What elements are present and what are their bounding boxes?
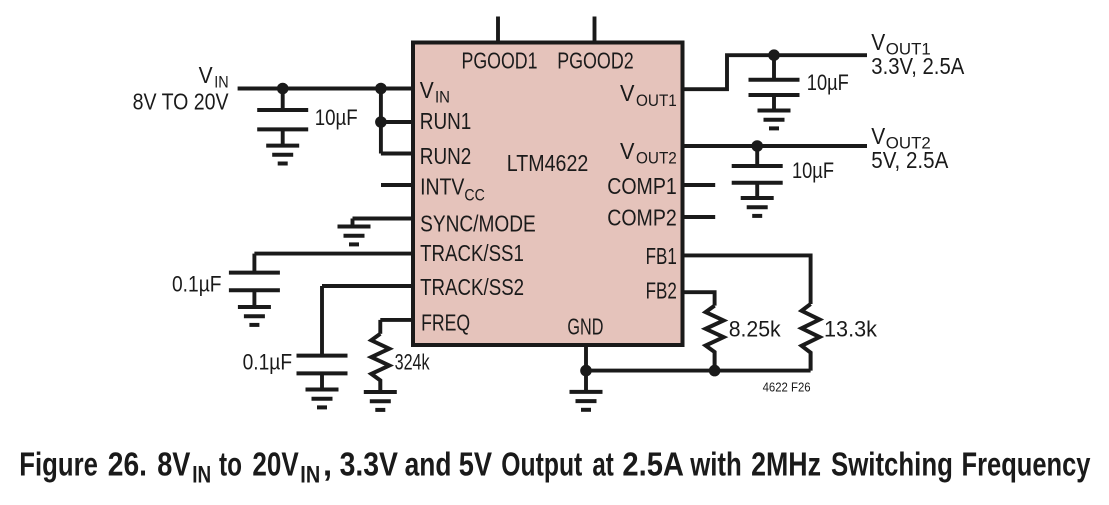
svg-text:13.3k: 13.3k — [824, 317, 878, 342]
wire FB1 to R2 — [681, 255, 811, 304]
capacitor C3 0.1uF — [297, 356, 348, 390]
svg-text:GND: GND — [567, 313, 603, 339]
svg-text:5V, 2.5A: 5V, 2.5A — [871, 147, 948, 173]
node junction VIN/C1 — [277, 83, 289, 95]
ground below C4 — [758, 111, 791, 129]
pin label INTVCC — [420, 174, 485, 205]
wire VOUT2 output — [681, 144, 867, 148]
wire SYNC/MODE to ground — [353, 219, 415, 227]
svg-text:OUT2: OUT2 — [636, 148, 677, 167]
svg-text:Switching: Switching — [831, 447, 953, 484]
svg-text:2MHz: 2MHz — [751, 447, 821, 484]
ground below C2 — [238, 307, 271, 325]
svg-text:IN: IN — [300, 462, 320, 489]
svg-text:CC: CC — [464, 186, 484, 205]
svg-text:Output: Output — [501, 447, 582, 484]
wire GND bus — [586, 369, 811, 373]
svg-text:INTV: INTV — [420, 174, 465, 200]
capacitor C4 10uF — [749, 55, 800, 110]
svg-text:8.25k: 8.25k — [729, 317, 782, 342]
wire COMP1 stub — [681, 183, 715, 187]
wire GND pin drop — [584, 344, 588, 371]
svg-text:3.3V: 3.3V — [340, 447, 399, 484]
ground below C1 — [266, 146, 299, 164]
wire GND symbol stub — [584, 371, 588, 392]
svg-text:8V TO 20V: 8V TO 20V — [133, 89, 229, 115]
op-amp U1 LTM4622 module body — [413, 43, 683, 346]
svg-text:Figure: Figure — [19, 447, 98, 484]
svg-text:V: V — [871, 29, 885, 55]
resistor R3 8.25k — [706, 306, 724, 371]
svg-text:COMP2: COMP2 — [607, 205, 677, 231]
svg-text:FB1: FB1 — [646, 243, 677, 269]
node VIN input label — [133, 62, 229, 114]
svg-text:10µF: 10µF — [807, 70, 849, 95]
svg-text:TRACK/SS1: TRACK/SS1 — [420, 240, 524, 266]
wire RUN2 stub — [381, 152, 415, 156]
svg-text:3.3V, 2.5A: 3.3V, 2.5A — [871, 53, 964, 79]
svg-text:V: V — [420, 77, 434, 103]
svg-text:10µF: 10µF — [315, 105, 358, 130]
svg-text:COMP1: COMP1 — [607, 173, 677, 199]
resistor R2 13.3k — [802, 304, 820, 371]
pin label VOUT1 (inside) — [620, 80, 677, 110]
node VOUT1 output label — [871, 29, 964, 79]
ground below C3 — [306, 390, 339, 408]
svg-text:SYNC/MODE: SYNC/MODE — [420, 210, 536, 236]
node junction R3 bottom — [709, 365, 721, 377]
svg-text:LTM4622: LTM4622 — [507, 150, 589, 176]
svg-text:10µF: 10µF — [792, 158, 834, 183]
ground main — [570, 392, 603, 410]
svg-text:FREQ: FREQ — [421, 310, 470, 336]
wire VIN input — [238, 87, 415, 91]
node junction RUN1 — [375, 116, 387, 128]
wire VOUT1 output — [681, 55, 867, 89]
svg-text:8V: 8V — [157, 447, 191, 484]
ground below C5 — [741, 198, 774, 216]
svg-text:OUT1: OUT1 — [636, 91, 677, 110]
svg-text:IN: IN — [192, 462, 211, 489]
node junction VIN/RUN bus — [375, 83, 387, 95]
svg-text:,: , — [323, 447, 332, 484]
svg-text:IN: IN — [435, 87, 450, 106]
wire COMP2 stub — [681, 215, 715, 219]
wire PGOOD1 top stub — [496, 17, 500, 45]
node VOUT2 output label — [871, 123, 948, 173]
svg-text:RUN2: RUN2 — [420, 143, 472, 169]
svg-text:and: and — [405, 447, 452, 484]
wire PGOOD2 top stub — [593, 17, 597, 45]
node junction VOUT1/C4 — [768, 49, 780, 61]
svg-text:to: to — [219, 447, 242, 484]
figure caption — [19, 447, 1090, 489]
svg-text:0.1µF: 0.1µF — [172, 272, 222, 297]
capacitor C2 0.1uF — [229, 273, 280, 307]
svg-text:Frequency: Frequency — [962, 447, 1091, 484]
svg-text:324k: 324k — [395, 349, 431, 374]
capacitor C1 10uF input — [257, 89, 308, 146]
svg-text:V: V — [871, 123, 885, 149]
ground at SYNC/MODE — [338, 227, 371, 245]
resistor R1 324k — [371, 334, 389, 392]
svg-text:20V: 20V — [252, 447, 299, 484]
svg-text:FB2: FB2 — [646, 278, 677, 304]
wire TRACK/SS1 to C2 — [254, 254, 414, 273]
svg-text:0.1µF: 0.1µF — [243, 349, 293, 374]
wire FB2 to R3 — [681, 292, 715, 305]
svg-text:PGOOD1: PGOOD1 — [462, 48, 538, 74]
wire VIN to RUN2 vertical — [379, 89, 383, 154]
capacitor C5 10uF — [732, 146, 783, 198]
node junction VOUT2/C5 — [751, 140, 763, 152]
svg-text:V: V — [620, 138, 635, 164]
svg-text:at: at — [592, 447, 613, 484]
wire INTVCC stub — [381, 183, 415, 187]
pin label VOUT2 (inside) — [620, 138, 677, 168]
svg-text:2.5A: 2.5A — [622, 447, 684, 484]
wire FREQ to R1 — [380, 320, 414, 334]
pin label VIN (inside) — [420, 77, 450, 107]
svg-text:RUN1: RUN1 — [420, 108, 472, 134]
svg-text:with: with — [689, 447, 741, 484]
svg-text:TRACK/SS2: TRACK/SS2 — [420, 274, 524, 300]
ground below R1 — [364, 392, 397, 410]
svg-text:PGOOD2: PGOOD2 — [557, 48, 634, 74]
svg-text:V: V — [199, 62, 213, 88]
svg-text:4622 F26: 4622 F26 — [763, 381, 811, 395]
svg-text:5V: 5V — [459, 447, 493, 484]
node junction GND pin — [580, 365, 592, 377]
svg-text:V: V — [620, 80, 635, 106]
svg-text:26.: 26. — [108, 447, 147, 484]
wire TRACK/SS2 to C3 — [322, 286, 415, 356]
wire RUN1 stub — [381, 120, 415, 124]
